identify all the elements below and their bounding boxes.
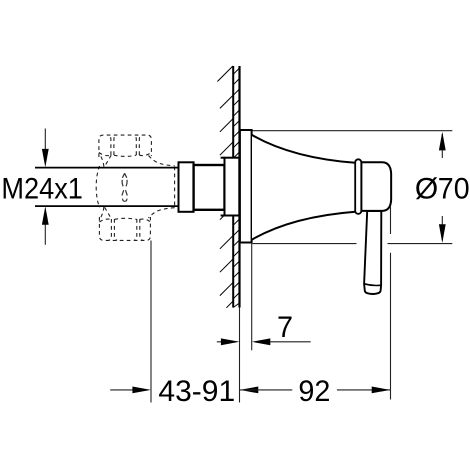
dimension line 7 — [217, 341, 311, 343]
wall opening lip bottom — [221, 215, 225, 217]
arrowhead 7 left — [221, 338, 240, 345]
top hex nut outline — [99, 135, 151, 157]
extension line escutcheon face (7) — [251, 244, 253, 351]
in-wall mounting flange — [225, 158, 240, 216]
dimension 43-91 — [110, 389, 135, 391]
dimension 92 — [240, 389, 391, 391]
body left edge — [96, 166, 99, 208]
arrowhead M24x1 bottom — [42, 206, 49, 225]
arrowhead 92 right — [372, 387, 391, 394]
wall opening lip top — [221, 157, 225, 159]
wall surface line — [238, 66, 240, 308]
extension sleeve — [194, 165, 225, 210]
extension line handle end (92) — [390, 207, 392, 235]
flow direction arrow (dashed, small) — [122, 173, 127, 201]
top hex facet dividers — [108, 135, 111, 155]
extension line left (43-91) — [150, 241, 152, 403]
body right edge — [174, 167, 176, 208]
arrowhead 7 right — [252, 338, 271, 345]
svg-text:70: 70 — [438, 172, 470, 205]
top hex bottom edges — [99, 153, 111, 156]
body left neck bottom — [101, 207, 104, 217]
valve body hidden outline (dashed) — [96, 135, 174, 240]
bottom hex top edges — [99, 219, 111, 222]
escutcheon trumpet bell — [252, 135, 355, 240]
handle hub — [361, 162, 391, 211]
valve spindle (M24x1 thread) — [35, 168, 179, 207]
arrowhead M24x1 top — [42, 149, 49, 168]
dimension Ø 70 — [253, 131, 453, 244]
svg-text:M24x1: M24x1 — [1, 172, 83, 205]
handle lever — [364, 211, 381, 294]
svg-text:7: 7 — [277, 311, 293, 344]
body right shoulder bottom — [149, 208, 175, 218]
body right shoulder top — [149, 156, 175, 166]
arrowhead 92 left / 43-91 right — [240, 387, 259, 394]
wall rough hatching — [217, 66, 233, 308]
lever end cap line — [364, 284, 381, 286]
extension sleeve flange — [179, 162, 194, 212]
svg-text:Ø: Ø — [415, 172, 438, 205]
wall finish layer hatching — [233, 68, 239, 308]
arrowhead diameter top — [439, 132, 446, 151]
svg-text:92: 92 — [298, 375, 330, 408]
bottom hex nut outline — [99, 217, 150, 240]
arrowhead diameter bottom — [439, 224, 446, 243]
extension line wall surface — [239, 308, 241, 403]
wall inner boundary line — [232, 66, 234, 308]
svg-text:43-91: 43-91 — [158, 375, 235, 408]
body left neck top — [101, 157, 104, 167]
arrowhead 43-91 left — [132, 387, 151, 394]
dimension M24x1 — [44, 129, 46, 245]
bottom hex facet dividers — [109, 219, 112, 240]
handle collar ring — [355, 159, 361, 214]
escutcheon base plate — [240, 130, 252, 243]
